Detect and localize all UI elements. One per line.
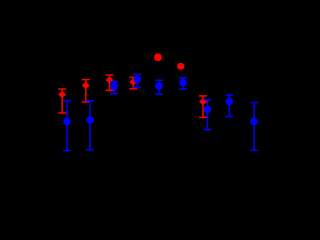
blue series point 4: circle marker (134, 76, 142, 84)
blue series point 2: circle marker (86, 116, 94, 124)
blue series point 9: circle marker (250, 118, 258, 126)
red series point 2: error bar (82, 80, 90, 102)
red series point 5: marker with tiny error bar (solid dot) (154, 54, 162, 61)
blue series point 1: error bar (63, 101, 71, 151)
blue series point 8: circle marker (226, 98, 234, 106)
blue series point 7: error bar (203, 100, 211, 130)
blue series point 6: circle marker (179, 79, 187, 87)
blue series point 1: circle marker (63, 118, 71, 126)
red series point 6: marker with tiny error bar (solid dot) (177, 63, 184, 70)
red series point 4: diamond marker (129, 78, 137, 85)
blue series point 2: error bar (86, 101, 94, 150)
red series point 3: error bar (106, 75, 114, 90)
red series point 2: diamond marker (82, 82, 90, 89)
blue series point 3: error bar (110, 82, 118, 94)
red series point 1: error bar (58, 89, 66, 113)
red series point 1: diamond marker (58, 91, 66, 98)
red series point 7: diamond marker (199, 98, 207, 105)
blue series point 4: error bar (133, 74, 141, 87)
red series point 4: error bar (129, 77, 137, 88)
blue series point 3: circle marker (110, 83, 118, 91)
blue series point 5: error bar (155, 80, 163, 94)
blue series point 9: error bar (250, 103, 258, 151)
red series point 3: diamond marker (106, 76, 114, 83)
blue series point 5: circle marker (155, 82, 163, 90)
blue series point 8: error bar (225, 95, 233, 117)
red series point 7: error bar (199, 96, 207, 118)
blue series point 7: circle marker (204, 106, 212, 114)
blue series point 6: error bar (179, 78, 187, 89)
